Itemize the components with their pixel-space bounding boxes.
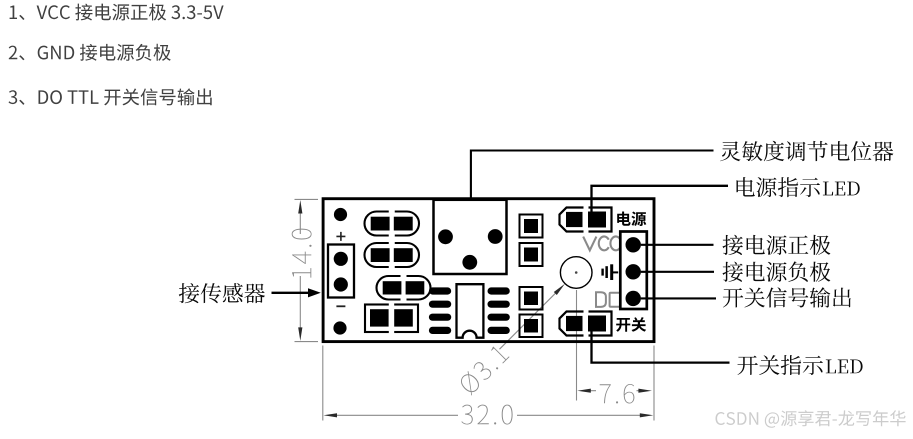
sensor connector J1 outline <box>328 245 354 298</box>
plus polarity mark <box>336 232 345 241</box>
leader: pin DO label <box>641 297 716 299</box>
P1 pin VCC <box>626 237 641 252</box>
leader: pin GND label <box>641 271 714 273</box>
label 接传感器 <box>179 283 265 303</box>
hole diameter arrow <box>554 284 565 295</box>
switch LED D2 <box>560 312 612 336</box>
P1 pin DO <box>626 291 641 306</box>
IC pad row right <box>488 287 510 294</box>
leader: switch LED label <box>592 329 730 363</box>
pin header P1 outline <box>620 232 647 310</box>
label 接电源正极 <box>723 235 831 255</box>
leader: pin VCC label <box>641 244 714 246</box>
RP1 pad 3 <box>462 255 477 270</box>
resistor R1 (two-pad SMD) <box>377 276 431 300</box>
dimension text 32.0 <box>461 405 512 425</box>
SMD pad D2b <box>520 315 543 338</box>
note line 2: GND power negative <box>9 44 171 61</box>
ground symbol (pin 2) <box>601 269 603 276</box>
dimension 7.6 arrows <box>577 389 591 393</box>
mounting hole bottom-left <box>333 321 346 334</box>
power LED D1 <box>560 208 612 232</box>
dimension 32.0 extension lines <box>323 346 654 421</box>
dimension 7.6 line <box>589 390 640 392</box>
IC pad row left <box>429 287 451 294</box>
dimension 14.0 extension ticks <box>295 199 319 341</box>
leader: power LED label <box>592 186 729 212</box>
label 开关信号输出 <box>723 287 851 307</box>
leader arrow: sensor connector <box>272 292 310 294</box>
dimension text 14.0 <box>292 229 312 278</box>
dimension 14.0 arrows <box>298 200 302 214</box>
dimension 7.6 extension line (hole center) <box>576 290 578 401</box>
label 灵敏度调节电位器 <box>720 141 893 161</box>
transistor Q1 outline with index notch <box>457 284 484 338</box>
dimension text Ø3.1 <box>457 343 510 396</box>
watermark <box>716 410 906 428</box>
hole diameter leader line <box>500 293 557 350</box>
board silk VCC <box>583 237 596 251</box>
potentiometer RP1 outline <box>434 200 507 274</box>
dimension 32.0 arrows <box>324 413 338 417</box>
label 开关指示LED <box>738 355 823 375</box>
J1 pad 1 <box>334 252 348 266</box>
P1 pin GND <box>626 264 641 279</box>
RP1 pad 2 <box>488 229 503 244</box>
SMD pad D1b <box>520 243 543 266</box>
board silk DO <box>596 292 606 307</box>
SMD pad D2a <box>520 287 543 310</box>
leader: potentiometer label <box>471 151 714 200</box>
mounting hole 3.1mm <box>560 257 592 289</box>
J1 pad 2 <box>334 277 348 291</box>
board label 开关 <box>616 317 646 332</box>
RP1 pad 1 <box>438 229 453 244</box>
label 接电源负极 <box>723 262 831 282</box>
dimension 14.0 line <box>299 212 301 330</box>
label 电源指示LED <box>737 177 821 197</box>
SMD pad D1a <box>520 215 543 238</box>
minus polarity mark <box>336 305 345 307</box>
resistor R2 (two-pad SMD) <box>365 305 418 333</box>
capacitor C2 (two-pad SMD) <box>365 243 420 267</box>
mounting hole top-left <box>334 208 347 221</box>
note line 3: DO TTL switch signal output <box>9 88 212 105</box>
note line 1: VCC power positive 3.3-5V <box>10 4 224 21</box>
dimension 32.0 line <box>336 414 641 416</box>
capacitor C1 (two-pad SMD) <box>365 212 420 236</box>
PCB board outline <box>323 199 654 342</box>
board label 电源 <box>617 212 646 227</box>
dimension text 7.6 <box>600 384 635 404</box>
